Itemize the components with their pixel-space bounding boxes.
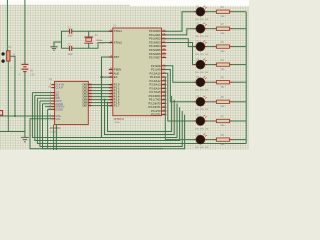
wire DB3 to U1 — [88, 93, 113, 95]
svg-text:ADC0804: ADC0804 — [50, 127, 61, 130]
ADC U2 pin 2 RD — [51, 94, 54, 96]
wire RV1 wiper — [10, 56, 15, 116]
wire U2 RD — [35, 94, 52, 96]
resistor R3 — [214, 46, 217, 48]
svg-text:LED-YELLOW: LED-YELLOW — [195, 147, 208, 149]
potentiometer RV1 — [7, 51, 10, 61]
MCU U1 pin 29 PSEN — [109, 69, 113, 71]
wire resistor R2 to rail — [233, 28, 247, 30]
wire U2 VIN- down — [30, 115, 185, 149]
wire bus line 3 — [32, 93, 177, 138]
MCU U1 pin 37 P0.2/AD2 — [162, 38, 167, 40]
wire VIN+ net — [0, 115, 51, 117]
capacitor C1 — [69, 29, 71, 34]
MCU U1 pin 2 P1.1 — [109, 87, 113, 89]
MCU U1 pin 3 P1.2 — [109, 90, 113, 92]
MCU U1 pin 19 XTAL1 — [109, 30, 113, 32]
MCU U1 pin 12 P3.2/INT0 — [162, 102, 167, 104]
wire U1 pin to LED D4 — [164, 43, 194, 65]
wire bus line 2 — [105, 100, 175, 135]
wire U2 VSS down — [55, 125, 57, 150]
resistor R7 — [214, 120, 217, 122]
wire junction to ground — [54, 42, 62, 47]
svg-text:P2.0/A8: P2.0/A8 — [151, 64, 161, 68]
ADC U2 pin 3 WR — [51, 97, 54, 99]
svg-text:P0.4/AD4: P0.4/AD4 — [149, 44, 161, 48]
ground symbol near capacitors — [50, 46, 57, 48]
svg-text:LED-YELLOW: LED-YELLOW — [195, 36, 208, 38]
MCU U1 pin 22 P2.1/A9 — [162, 69, 167, 71]
svg-text:XTAL1: XTAL1 — [114, 29, 123, 33]
wire LED D4 to resistor R4 — [207, 64, 214, 66]
junction dot wiper VIN+ — [14, 115, 16, 117]
MCU U1 pin 13 P3.3/INT1 — [162, 106, 167, 108]
svg-text:LED-YELLOW: LED-YELLOW — [195, 128, 208, 130]
MCU U1 pin 32 P0.7/AD7 — [162, 57, 167, 59]
ADC U2 pin 5 INTR — [51, 100, 54, 102]
wire resistor R1 to rail — [233, 11, 247, 13]
wire bus line 4 — [35, 95, 180, 140]
resistor R6 — [214, 101, 217, 103]
resistor R1 — [214, 11, 217, 13]
ADC U2 pin 8 AGND — [51, 103, 54, 105]
svg-text:XTAL2: XTAL2 — [114, 41, 123, 45]
schematic sheet background grid — [0, 0, 249, 150]
MCU U1 pin 31 EA — [109, 76, 113, 78]
ground symbol bottom left — [21, 136, 29, 138]
svg-text:P0.0/AD0: P0.0/AD0 — [149, 29, 161, 33]
MCU U1 pin 10 P3.0/RXD — [162, 95, 167, 97]
MCU U1 pin 9 RST — [109, 56, 113, 58]
wire resistor R4 to rail — [233, 64, 247, 66]
wire U2 AGND — [43, 103, 52, 105]
svg-text:P3.4/T0: P3.4/T0 — [151, 109, 161, 113]
wire LED D2 to resistor R2 — [207, 28, 214, 30]
wire battery rail — [24, 0, 26, 64]
wire resistor R7 to rail — [233, 120, 247, 122]
wire DB7 to U1 — [88, 105, 113, 107]
MCU U1 pin 38 P0.1/AD1 — [162, 34, 167, 36]
MCU U1 pin 1 P1.0 — [109, 84, 113, 86]
power terminal at left edge — [0, 111, 3, 116]
wire LED return rail — [245, 12, 247, 144]
wire U1 pin to LED D1 — [164, 12, 194, 32]
wire U2 VREF — [45, 106, 51, 108]
svg-text:P0.5/AD5: P0.5/AD5 — [149, 48, 161, 52]
resistor R2 — [214, 28, 217, 30]
junction dot bus 1 — [107, 102, 109, 104]
LED D7 — [194, 120, 197, 122]
wire resistor R8 to rail — [233, 139, 247, 141]
MCU U1 pin 21 P2.0/A8 — [162, 65, 167, 67]
wire EA net down to bus — [101, 77, 103, 137]
ADC U2 pin 4 CLK IN — [51, 84, 54, 86]
LED D5 — [194, 81, 197, 83]
svg-text:ALE: ALE — [114, 71, 119, 75]
svg-text:P2.2/A10: P2.2/A10 — [150, 71, 162, 75]
svg-text:PSEN: PSEN — [114, 68, 121, 72]
svg-text:DGND: DGND — [55, 107, 63, 111]
battery B1 — [21, 63, 28, 65]
wire resistor R3 to rail — [233, 46, 247, 48]
svg-text:30pF: 30pF — [68, 54, 74, 56]
svg-text:LED-YELLOW: LED-YELLOW — [195, 72, 208, 74]
MCU U1 pin 6 P1.5 — [109, 99, 113, 101]
LED D4 — [194, 64, 197, 66]
LED D1 — [194, 11, 197, 13]
wire RV1 bottom to ground net — [7, 61, 9, 131]
MCU U1 body — [113, 28, 162, 116]
wire XTAL1 net — [72, 30, 113, 32]
wire U1 pin to LED D2 — [164, 29, 194, 35]
wire LED D1 to resistor R1 — [207, 11, 214, 13]
MCU U1 pin 33 P0.6/AD6 — [162, 53, 167, 55]
wire U2 DGND — [48, 108, 52, 110]
wire XTAL2 net — [72, 43, 113, 49]
svg-text:EA: EA — [114, 75, 118, 79]
svg-text:P2.3/A11: P2.3/A11 — [150, 75, 161, 79]
MCU U1 pin 39 P0.0/AD0 — [162, 30, 167, 32]
wire U1 pin to LED D6 — [164, 70, 194, 102]
wire bus line 6 — [40, 101, 182, 147]
wire LED D8 to resistor R8 — [207, 139, 214, 141]
svg-text:DB7: DB7 — [82, 104, 88, 108]
svg-text:P1.7: P1.7 — [114, 104, 120, 108]
junction dot EA net — [100, 76, 102, 78]
svg-text:30pF: 30pF — [68, 36, 74, 38]
svg-text:LED-YELLOW: LED-YELLOW — [195, 19, 208, 21]
MCU U1 pin 18 XTAL2 — [109, 42, 113, 44]
wire bus line 1 — [108, 96, 172, 132]
wire LED D3 to resistor R3 — [207, 46, 214, 48]
MCU U1 pin 34 P0.5/AD5 — [162, 49, 167, 51]
wire DB4 to U1 — [88, 96, 113, 98]
svg-text:VIN-: VIN- — [55, 117, 60, 121]
svg-text:P2.5/A13: P2.5/A13 — [150, 83, 162, 87]
ADC U2 body — [55, 81, 89, 124]
wire U2 INTR — [40, 100, 52, 102]
svg-text:P2.7/A15: P2.7/A15 — [150, 90, 162, 94]
ADC U2 pin 1 CS — [51, 92, 54, 94]
MCU U1 pin 27 P2.6/A14 — [162, 87, 167, 89]
MCU U1 pin 24 P2.3/A11 — [162, 76, 167, 78]
MCU U1 pin 23 P2.2/A10 — [162, 72, 167, 74]
wire C1 left junction — [62, 31, 70, 48]
MCU U1 pin 28 P2.7/A15 — [162, 91, 167, 93]
LED D8 — [194, 139, 197, 141]
wire DB2 to U1 — [88, 90, 113, 92]
wire VCC rail left — [6, 0, 8, 51]
svg-text:12V: 12V — [30, 75, 35, 77]
wire bus line 5 to LED rail — [37, 98, 246, 143]
svg-text:12MHz: 12MHz — [114, 122, 120, 124]
wire U1 pin to LED D7 — [164, 73, 194, 121]
svg-text:AT89C51: AT89C51 — [114, 118, 125, 121]
svg-text:P3.0/RXD: P3.0/RXD — [149, 94, 161, 98]
wire RST to EA — [102, 57, 113, 77]
MCU U1 pin 30 ALE — [109, 72, 113, 74]
wire DB0 to U1 — [88, 84, 113, 86]
wire LED D5 to resistor R5 — [207, 81, 214, 83]
wire ground net bottom left — [0, 131, 25, 133]
svg-text:8-bit ADC: 8-bit ADC — [50, 131, 59, 134]
resistor R8 — [214, 139, 217, 141]
svg-text:LED-YELLOW: LED-YELLOW — [195, 109, 208, 111]
MCU U1 pin 5 P1.4 — [109, 96, 113, 98]
MCU U1 pin 4 P1.3 — [109, 93, 113, 95]
svg-text:P2.1/A9: P2.1/A9 — [151, 68, 161, 72]
wire DB1 to U1 — [88, 87, 113, 89]
MCU U1 pin 11 P3.1/TXD — [162, 99, 167, 101]
svg-text:P0.3/AD3: P0.3/AD3 — [149, 41, 161, 45]
wire U2 GND down — [53, 125, 55, 150]
junction dot bus 2 — [104, 99, 106, 101]
MCU U1 pin 26 P2.5/A13 — [162, 84, 167, 86]
MCU U1 pin 15 P3.5/T1 — [162, 114, 167, 116]
LED D3 — [194, 46, 197, 48]
svg-text:RV1: RV1 — [7, 46, 12, 49]
wire DB6 to U1 — [88, 102, 113, 104]
MCU U1 pin 36 P0.3/AD3 — [162, 42, 167, 44]
svg-text:P3.2/INT0: P3.2/INT0 — [148, 101, 161, 105]
ADC U2 pin 9 VREF/2 — [51, 106, 54, 108]
capacitor C2 — [69, 46, 71, 51]
wire U1 pin to LED D3 — [164, 39, 194, 47]
ADC U2 pin 10 DGND — [51, 108, 54, 110]
svg-text:RST: RST — [114, 55, 120, 59]
wire battery negative down — [24, 72, 26, 138]
LED D2 — [194, 28, 197, 30]
wire LED D6 to resistor R6 — [207, 101, 214, 103]
svg-text:P0.2/AD2: P0.2/AD2 — [149, 37, 161, 41]
wire U2 WR — [37, 97, 51, 99]
resistor R5 — [214, 81, 217, 83]
wire LED D7 to resistor R7 — [207, 120, 214, 122]
svg-text:P0.6/AD6: P0.6/AD6 — [149, 52, 161, 56]
MCU U1 pin 14 P3.4/T0 — [162, 110, 167, 112]
svg-text:CLK R: CLK R — [55, 86, 63, 90]
crystal X1 — [88, 31, 90, 37]
svg-text:LED-YELLOW: LED-YELLOW — [195, 54, 208, 56]
MCU U1 pin 35 P0.4/AD4 — [162, 45, 167, 47]
svg-text:P3.1/TXD: P3.1/TXD — [149, 98, 161, 102]
ADC U2 pin 6 VIN+ — [51, 115, 54, 117]
svg-text:P3.3/INT1: P3.3/INT1 — [148, 105, 161, 109]
svg-text:P3.5/T1: P3.5/T1 — [151, 113, 161, 117]
svg-text:LED-YELLOW: LED-YELLOW — [195, 90, 208, 92]
wire bus line 7 — [43, 104, 164, 149]
svg-text:CRYSTAL: CRYSTAL — [96, 42, 106, 45]
MCU U1 pin 25 P2.4/A12 — [162, 80, 167, 82]
wire DB5 to U1 — [88, 99, 113, 101]
svg-text:P0.7/AD7: P0.7/AD7 — [149, 56, 161, 60]
MCU U1 pin 7 P1.6 — [109, 102, 113, 104]
svg-text:P0.1/AD1: P0.1/AD1 — [149, 33, 161, 37]
MCU U1 pin 8 P1.7 — [109, 105, 113, 107]
wire U1 pin to LED D5 — [164, 66, 194, 82]
wire resistor R6 to rail — [233, 101, 247, 103]
wire resistor R5 to rail — [233, 81, 247, 83]
LED D6 — [194, 101, 197, 103]
wire U1 pin to LED D8 — [164, 77, 194, 140]
ADC U2 pin 19 CLK R — [51, 87, 54, 89]
svg-text:P2.4/A12: P2.4/A12 — [150, 79, 162, 83]
resistor R4 — [214, 64, 217, 66]
svg-text:P2.6/A14: P2.6/A14 — [150, 86, 162, 90]
wire U2 CS — [32, 92, 51, 94]
ADC U2 pin 7 VIN- — [51, 118, 54, 120]
